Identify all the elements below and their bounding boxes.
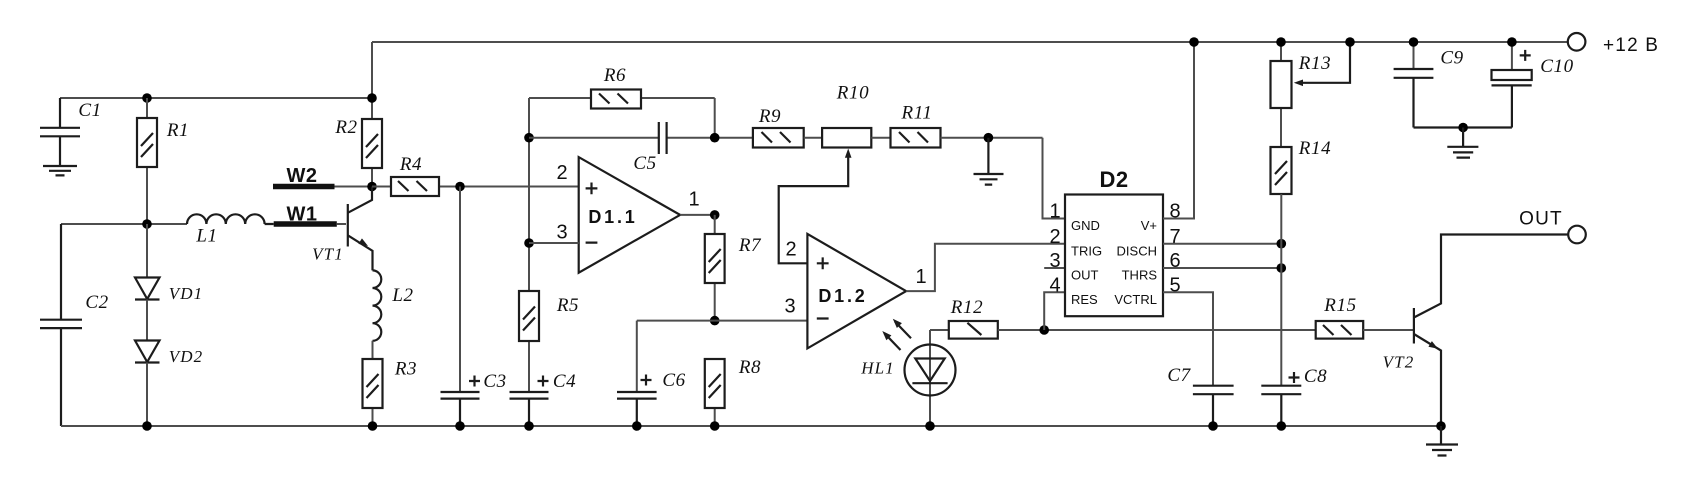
svg-text:TRIG: TRIG	[1071, 243, 1102, 258]
svg-text:R15: R15	[1323, 295, 1356, 316]
label C8 with polarity	[1289, 372, 1300, 383]
svg-text:R5: R5	[556, 295, 579, 316]
svg-text:VD2: VD2	[169, 347, 203, 366]
junction: feedback node right	[710, 133, 720, 143]
wire: +12V top rail	[372, 41, 1568, 43]
svg-text:R7: R7	[738, 235, 762, 256]
svg-text:R11: R11	[901, 103, 933, 124]
junction: DISCH on R14/C8 line	[1277, 239, 1287, 249]
svg-text:3: 3	[556, 222, 567, 244]
junction: R3 bottom on rail	[368, 421, 378, 431]
junction: C7 bottom on rail	[1208, 421, 1218, 431]
junction: feedback node left	[524, 133, 534, 143]
LED HL1	[905, 330, 956, 426]
capacitor C3	[441, 187, 480, 427]
svg-text:OUT: OUT	[1519, 209, 1563, 230]
capacitor C9	[1394, 42, 1512, 128]
svg-text:OUT: OUT	[1071, 268, 1099, 283]
junction: C8 bottom on rail	[1277, 421, 1287, 431]
svg-text:C3: C3	[483, 371, 506, 392]
resistor R6	[529, 90, 715, 138]
diode VD2	[135, 341, 160, 427]
svg-text:R13: R13	[1298, 53, 1331, 74]
junction: R13 top on rail	[1276, 37, 1286, 47]
capacitor C5	[659, 122, 667, 154]
svg-text:R14: R14	[1298, 138, 1331, 159]
wire: D2 pin 5 (VCTRL) to C7	[1163, 292, 1213, 385]
wire: C1/R1 top node	[60, 97, 372, 99]
R13 wiper arm	[1298, 42, 1351, 83]
ground (C9/C10)	[1447, 128, 1478, 158]
junction: inverting input node	[524, 238, 534, 248]
svg-text:HL1: HL1	[860, 359, 895, 378]
resistor R1	[137, 98, 157, 224]
svg-text:3: 3	[1049, 250, 1060, 272]
svg-text:4: 4	[1049, 275, 1060, 297]
svg-text:C5: C5	[633, 153, 656, 174]
junction: HL1 bottom on rail	[925, 421, 935, 431]
svg-text:2: 2	[556, 162, 567, 184]
op-amp D1.1	[579, 157, 680, 273]
junction: R1 top	[142, 93, 152, 103]
junction: VD2 bottom on rail	[142, 421, 152, 431]
svg-text:L2: L2	[391, 285, 413, 306]
svg-text:1: 1	[915, 266, 926, 288]
junction: L1/C2/R1/VD1 node	[142, 219, 152, 229]
junction: C9 top on rail	[1409, 37, 1419, 47]
svg-text:2: 2	[785, 239, 796, 261]
winding terminal W2 (thick bar)	[273, 184, 335, 190]
resistor R2	[362, 119, 382, 187]
junction: R8 bottom on rail	[710, 421, 720, 431]
transistor VT2 base bar	[1413, 308, 1415, 344]
junction: R2 branch on C1 node	[367, 93, 377, 103]
svg-text:R9: R9	[758, 106, 781, 127]
svg-text:L1: L1	[195, 226, 217, 247]
junction: C10 top on rail	[1507, 37, 1517, 47]
label C4 with polarity	[538, 376, 549, 387]
svg-text:DISCH: DISCH	[1117, 243, 1157, 258]
svg-text:VD1: VD1	[169, 284, 203, 303]
wire: D1.1 output	[680, 214, 715, 216]
svg-text:C9: C9	[1440, 48, 1463, 69]
transistor VT1 emitter with arrow	[348, 235, 373, 270]
junction: C6 bottom on rail	[632, 421, 642, 431]
svg-text:2: 2	[1049, 226, 1060, 248]
transistor VT1 collector	[348, 187, 372, 213]
label C10 with polarity	[1520, 50, 1531, 61]
resistor R9	[753, 128, 822, 148]
HL1 emission arrows	[885, 322, 912, 350]
junction: D2 pin4 node	[1039, 325, 1049, 335]
svg-text:VT2: VT2	[1383, 353, 1415, 372]
bottom ground rail	[61, 425, 1441, 427]
junction: R4/C3/op-amp input node	[455, 182, 465, 192]
svg-text:R8: R8	[738, 357, 761, 378]
svg-text:D2: D2	[1099, 167, 1128, 192]
svg-text:W1: W1	[287, 204, 318, 226]
svg-text:1: 1	[688, 189, 699, 211]
junction: VT2 emitter on rail	[1436, 421, 1446, 431]
resistor R8	[705, 359, 725, 426]
svg-text:GND: GND	[1071, 218, 1100, 233]
svg-text:THRS: THRS	[1122, 268, 1158, 283]
label C3 with polarity	[469, 376, 480, 387]
svg-text:VCTRL: VCTRL	[1114, 292, 1157, 307]
svg-text:VT1: VT1	[312, 245, 344, 264]
svg-text:C7: C7	[1167, 365, 1191, 386]
capacitor C4	[510, 392, 549, 426]
svg-text:C10: C10	[1540, 56, 1573, 77]
wire: VD1 anode	[146, 224, 148, 278]
diode VD1	[135, 278, 160, 341]
winding terminal W1 (thick bar)	[274, 221, 337, 227]
resistor R5	[519, 291, 539, 392]
inductor L2	[373, 270, 382, 340]
resistor R4	[372, 177, 579, 196]
wire: D2 pin 7 (DISCH)	[1163, 243, 1281, 245]
svg-text:3: 3	[784, 296, 795, 318]
junction: pin8 riser on top rail	[1189, 37, 1199, 47]
svg-text:C6: C6	[662, 370, 685, 391]
transistor VT1 base bar	[347, 204, 349, 247]
wire: vertical from top rail to R2	[371, 42, 373, 119]
junction: R11/ground node	[984, 133, 994, 143]
svg-text:C8: C8	[1304, 366, 1327, 387]
IC D2 (timer)	[1065, 195, 1163, 317]
transistor VT2 emitter with arrow	[1414, 334, 1441, 426]
wire: C2/L1 node	[61, 223, 187, 225]
junction: R2/W2/R4/VT1-collector node	[367, 182, 377, 192]
svg-text:+12 В: +12 В	[1603, 35, 1659, 56]
capacitor C1	[40, 98, 80, 166]
wire: D1.2 output to D2 TRIG	[906, 244, 1065, 291]
junction: THRS on R14/C8 line	[1277, 263, 1287, 273]
svg-text:RES: RES	[1071, 292, 1098, 307]
svg-text:R6: R6	[603, 65, 626, 86]
wire: W2 bar to R2/R4 node	[335, 186, 373, 188]
svg-text:R3: R3	[394, 359, 417, 380]
junction: C9/C10 ground node	[1458, 123, 1468, 133]
resistor R12	[949, 321, 1316, 339]
resistor R3	[363, 341, 383, 426]
junction: C4 bottom on rail	[524, 421, 534, 431]
junction: C3 bottom on rail	[455, 421, 465, 431]
capacitor C6	[617, 321, 657, 426]
wire: D1.1 inverting input	[529, 242, 579, 244]
svg-text:C1: C1	[78, 100, 101, 121]
ground (R11 node)	[974, 138, 1004, 185]
wire: D2 pin 6 (THRS)	[1163, 267, 1281, 269]
resistor R11	[891, 128, 1043, 148]
label C6 with polarity	[641, 375, 652, 386]
junction: wiper branch on rail	[1345, 37, 1355, 47]
wire: to D2 pin 1 (GND)	[1043, 138, 1066, 219]
wire: W1 bar to VT1 base	[337, 223, 346, 225]
svg-text:W2: W2	[287, 165, 318, 187]
svg-text:R2: R2	[334, 117, 357, 138]
op-amp D1.2	[807, 234, 906, 349]
inductor L1	[187, 214, 274, 224]
wire: inverting-input vertical (R6/C5 node to R5)	[528, 98, 530, 291]
resistor R15	[1316, 321, 1414, 339]
svg-text:V+: V+	[1141, 218, 1157, 233]
capacitor C7	[1193, 386, 1234, 426]
svg-text:C4: C4	[553, 371, 576, 392]
wire: D2 pin 8 (V+) to top rail	[1163, 42, 1194, 219]
capacitor C10 (polarized)	[1492, 42, 1532, 128]
svg-text:R1: R1	[166, 120, 189, 141]
junction: R7/R8/C6/D1.2 input node	[710, 316, 720, 326]
wire: node to D1.2 inverting input	[637, 320, 808, 322]
potentiometer R13	[1271, 42, 1292, 147]
svg-text:C2: C2	[85, 292, 108, 313]
terminal OUT	[1568, 226, 1586, 244]
svg-text:D1.1: D1.1	[588, 207, 637, 227]
svg-text:R12: R12	[950, 297, 983, 318]
ground (VT2 emitter)	[1426, 426, 1458, 456]
junction: D1.1 output node	[710, 210, 720, 220]
capacitor C8	[1261, 386, 1301, 426]
resistor R14	[1271, 147, 1292, 386]
svg-text:1: 1	[1049, 201, 1060, 223]
ground (below C1)	[43, 166, 77, 175]
wire: D2 pin 4 (RES)	[1044, 292, 1065, 330]
transistor VT2 collector to OUT	[1414, 235, 1568, 318]
terminal +12V	[1568, 33, 1586, 51]
capacitor C2	[40, 224, 82, 426]
wire: feedback through C5	[529, 137, 753, 139]
svg-text:R10: R10	[836, 83, 869, 104]
resistor R7	[705, 215, 725, 321]
wire: D2 pin 3 stub (OUT)	[1044, 267, 1065, 269]
potentiometer R10	[822, 128, 890, 148]
R10 wiper arrow and wire to D1.2 pin 2	[779, 154, 849, 264]
svg-text:R4: R4	[399, 154, 422, 175]
svg-text:D1.2: D1.2	[818, 286, 867, 306]
